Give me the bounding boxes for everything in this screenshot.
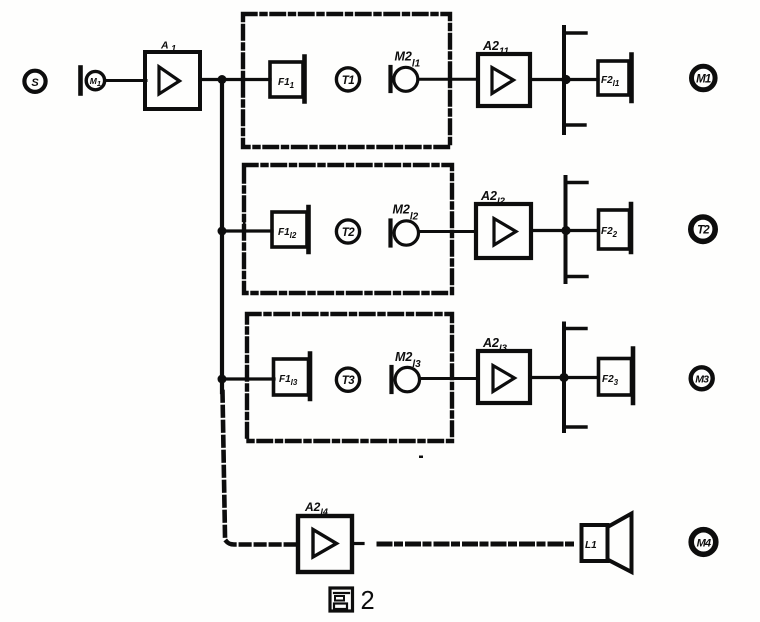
wire A2_14 output stub (352, 542, 363, 545)
wire A1 to F1_1 (200, 78, 270, 81)
listener M1 (692, 66, 716, 90)
node junction row2 (218, 227, 227, 236)
amplifier A2_11 (478, 39, 530, 106)
svg-text:M1: M1 (90, 76, 101, 88)
svg-text:S: S (31, 77, 39, 89)
node T3 (336, 368, 359, 391)
dash-dot enclosure room T1 (243, 14, 450, 147)
dash-dot enclosure room T2 (244, 165, 452, 293)
wire A2_13 to F2_3 (530, 376, 598, 379)
microphone M1 (81, 68, 105, 94)
amplifier A1 (145, 40, 200, 110)
wire A2_11 to F2_1 (530, 78, 598, 81)
svg-text:T1: T1 (342, 75, 355, 87)
wall barrier row2 (566, 177, 588, 282)
wire trunk vertical solid (220, 80, 224, 393)
filter F2_2 (599, 204, 632, 252)
svg-text:M3: M3 (695, 373, 709, 385)
svg-text:A 1: A 1 (160, 40, 176, 54)
microphone M2_1 (391, 50, 421, 92)
node junction row3 (218, 375, 227, 384)
svg-text:F1l2: F1l2 (278, 227, 297, 240)
wire trunk to F1_2 (222, 229, 272, 232)
node T2 (336, 220, 359, 243)
loudspeaker L1 (582, 514, 632, 573)
wire M1 to A1 (105, 79, 146, 82)
wall barrier row1 (564, 27, 586, 133)
wire M2_3 to A2_13 (421, 377, 479, 380)
amplifier A2_13 (478, 336, 530, 403)
svg-text:F1l3: F1l3 (279, 374, 298, 387)
svg-text:F2l1: F2l1 (601, 75, 620, 88)
wire trunk dashed to A2_14 (223, 392, 297, 545)
caption figure 2 (330, 587, 375, 615)
amplifier A2_12 (476, 189, 531, 258)
svg-text:F22: F22 (601, 226, 618, 239)
svg-text:T2: T2 (697, 225, 710, 237)
source S (24, 71, 45, 92)
node junction wall row2 (561, 226, 570, 235)
filter F1_2 (272, 207, 309, 252)
filter F1_3 (274, 354, 311, 400)
wall barrier row3 (564, 324, 586, 432)
wire M2_2 to A2_12 (420, 230, 477, 233)
scan speck (243, 222, 246, 229)
svg-text:M4: M4 (697, 538, 711, 550)
wire dash-dot A2_14 to L1 (379, 542, 578, 547)
filter F2_1 (598, 55, 632, 102)
node T1 (336, 68, 359, 91)
svg-text:2: 2 (361, 587, 375, 615)
node junction wall row3 (559, 373, 568, 382)
microphone M2_2 (391, 203, 419, 246)
wire M2_1 to A2_11 (419, 78, 478, 81)
amplifier A2_14 (298, 500, 352, 572)
filter F1_1 (270, 57, 305, 102)
svg-text:T2: T2 (342, 227, 356, 239)
wire trunk to F1_3 (222, 377, 274, 380)
svg-text:F11: F11 (278, 77, 295, 90)
dash-dot enclosure room T3 (247, 314, 452, 441)
node junction at A1 output (218, 75, 227, 84)
filter F2_3 (599, 349, 634, 404)
node junction wall row1 (561, 75, 570, 84)
listener M3 (691, 367, 713, 389)
wire A2_12 to F2_2 (531, 229, 598, 232)
listener T2 (691, 217, 715, 241)
microphone M2_3 (392, 350, 422, 392)
svg-text:L1: L1 (585, 540, 597, 551)
scan speck (419, 456, 423, 459)
svg-text:F23: F23 (602, 374, 619, 387)
svg-text:T3: T3 (342, 375, 356, 387)
listener M4 (691, 530, 716, 555)
svg-text:M1: M1 (696, 74, 711, 86)
